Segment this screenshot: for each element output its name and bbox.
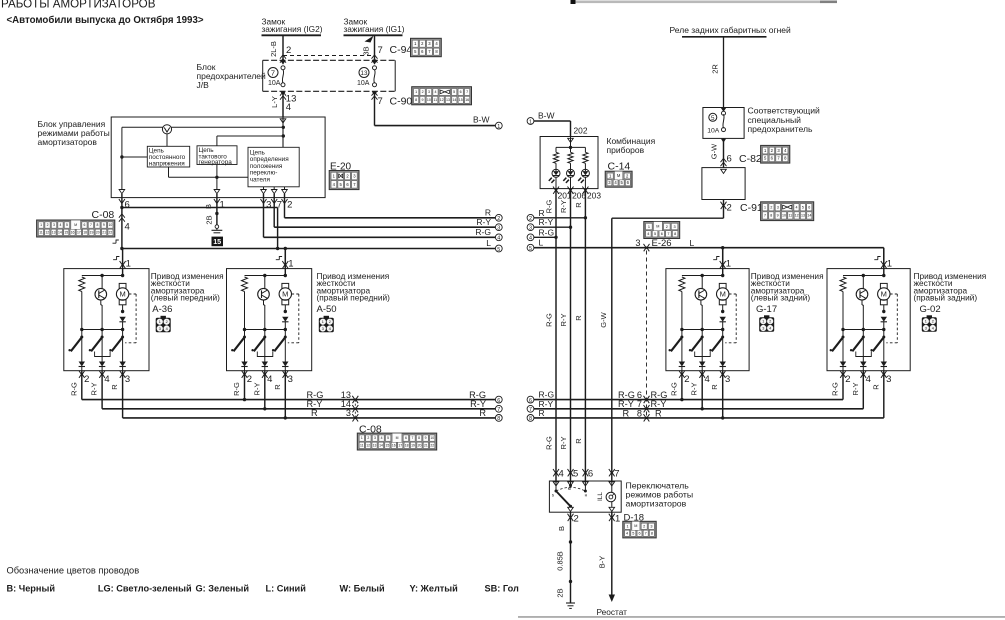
svg-text:14: 14 (379, 443, 383, 447)
svg-text:19: 19 (411, 443, 415, 447)
svg-text:3: 3 (777, 205, 779, 209)
svg-text:15: 15 (385, 443, 389, 447)
svg-text:3: 3 (925, 326, 927, 330)
svg-text:(левый задний): (левый задний) (751, 293, 811, 303)
svg-text:3: 3 (725, 374, 730, 385)
svg-text:7: 7 (764, 214, 766, 218)
svg-text:4: 4 (626, 532, 628, 536)
svg-text:7: 7 (90, 223, 92, 227)
svg-text:3: 3 (159, 327, 161, 331)
svg-text:M: M (74, 223, 77, 227)
svg-text:2B: 2B (556, 588, 565, 597)
svg-text:M: M (881, 290, 887, 299)
svg-text:L-Y: L-Y (270, 96, 279, 108)
svg-text:5: 5 (387, 436, 389, 440)
svg-text:С-08: С-08 (92, 209, 115, 221)
svg-text:20: 20 (418, 443, 422, 447)
svg-text:2R: 2R (711, 64, 720, 74)
svg-text:14: 14 (58, 230, 62, 234)
svg-text:7: 7 (378, 96, 383, 107)
svg-text:9: 9 (777, 214, 779, 218)
svg-text:С-82: С-82 (739, 153, 762, 165)
svg-text:4: 4 (529, 236, 532, 242)
svg-text:1: 1 (925, 320, 927, 324)
svg-text:M: M (634, 524, 637, 528)
svg-text:R: R (623, 408, 630, 418)
svg-text:10: 10 (782, 214, 786, 218)
svg-text:8: 8 (96, 223, 98, 227)
svg-text:8: 8 (497, 416, 500, 422)
svg-text:амортизаторов: амортизаторов (626, 499, 687, 509)
svg-text:Обозначение цветов проводов: Обозначение цветов проводов (7, 565, 140, 575)
svg-text:16: 16 (71, 230, 75, 234)
svg-text:4: 4 (932, 326, 934, 330)
svg-text:(правый задний): (правый задний) (914, 293, 978, 303)
svg-text:M: M (656, 224, 659, 228)
svg-text:3: 3 (497, 226, 500, 232)
svg-text:B: B (204, 204, 213, 209)
svg-text:4: 4 (647, 232, 649, 236)
svg-text:8: 8 (637, 408, 642, 418)
svg-text:M: M (282, 290, 288, 299)
svg-text:4: 4 (286, 102, 291, 113)
svg-text:R-G: R-G (831, 382, 840, 396)
svg-text:2: 2 (684, 374, 689, 385)
svg-text:Реле задних габаритных огней: Реле задних габаритных огней (670, 25, 792, 35)
svg-text:1: 1 (615, 514, 620, 525)
svg-text:С-91: С-91 (740, 202, 763, 214)
svg-text:(правый передний): (правый передний) (317, 293, 391, 303)
svg-text:5: 5 (654, 232, 656, 236)
svg-text:8: 8 (674, 232, 676, 236)
svg-text:ILL: ILL (597, 492, 604, 501)
svg-text:16: 16 (392, 443, 396, 447)
svg-text:R-Y: R-Y (476, 217, 491, 227)
svg-text:R: R (574, 315, 583, 321)
svg-text:L: L (690, 238, 695, 248)
svg-text:6: 6 (405, 436, 407, 440)
svg-text:E-26: E-26 (652, 238, 672, 249)
svg-text:1: 1 (764, 205, 766, 209)
svg-text:5: 5 (802, 205, 804, 209)
svg-text:7: 7 (529, 407, 532, 413)
svg-text:18: 18 (405, 443, 409, 447)
svg-text:5: 5 (497, 247, 500, 253)
svg-text:G-W: G-W (599, 311, 608, 327)
svg-text:1: 1 (627, 524, 629, 528)
svg-text:R: R (479, 408, 486, 418)
svg-text:R: R (110, 384, 119, 390)
svg-text:B-Y: B-Y (598, 556, 607, 569)
svg-text:2: 2 (845, 374, 850, 385)
svg-text:2: 2 (166, 320, 168, 324)
svg-text:R-Y: R-Y (690, 383, 699, 396)
svg-text:4: 4 (166, 327, 168, 331)
svg-text:5: 5 (711, 115, 715, 122)
svg-text:R: R (871, 384, 880, 390)
svg-text:2: 2 (770, 205, 772, 209)
svg-text:3B: 3B (362, 46, 371, 55)
svg-text:1: 1 (529, 119, 532, 125)
svg-text:12: 12 (366, 443, 370, 447)
svg-text:5: 5 (529, 246, 532, 252)
svg-text:2: 2 (287, 200, 292, 211)
svg-text:напряжения: напряжения (149, 160, 185, 167)
svg-text:R: R (710, 384, 719, 390)
svg-text:1: 1 (159, 320, 161, 324)
svg-text:22: 22 (430, 443, 434, 447)
svg-text:1: 1 (288, 259, 293, 270)
svg-text:4: 4 (434, 90, 436, 94)
svg-text:3: 3 (650, 524, 652, 528)
svg-text:M: M (119, 290, 125, 299)
svg-text:<Автомобили выпуска до Октября: <Автомобили выпуска до Октября 1993> (7, 15, 204, 26)
svg-text:4: 4 (559, 469, 564, 480)
svg-text:R-Y: R-Y (539, 217, 554, 227)
svg-text:10: 10 (427, 98, 431, 102)
svg-text:C-94: C-94 (390, 44, 413, 56)
svg-text:R-Y: R-Y (559, 200, 568, 213)
svg-text:R-G: R-G (232, 382, 241, 396)
svg-text:3: 3 (53, 223, 55, 227)
svg-text:13: 13 (52, 230, 56, 234)
svg-text:1: 1 (322, 320, 324, 324)
svg-text:16: 16 (465, 98, 469, 102)
svg-text:6: 6 (727, 154, 732, 165)
svg-text:M: M (396, 436, 399, 440)
svg-text:W: Белый: W: Белый (340, 583, 386, 593)
svg-text:L: L (539, 238, 544, 248)
svg-text:11: 11 (788, 214, 792, 218)
svg-text:7: 7 (378, 45, 383, 56)
svg-text:LG: Светло-зеленый: LG: Светло-зеленый (98, 583, 192, 593)
svg-text:А-36: А-36 (152, 304, 172, 315)
svg-text:21: 21 (102, 230, 106, 234)
svg-text:2: 2 (727, 203, 732, 214)
svg-text:3: 3 (529, 226, 532, 232)
svg-text:13: 13 (801, 214, 805, 218)
svg-text:18: 18 (83, 230, 87, 234)
svg-text:0.85B: 0.85B (556, 551, 565, 571)
svg-text:2: 2 (47, 223, 49, 227)
svg-text:3: 3 (428, 90, 430, 94)
svg-text:зажигания (IG2): зажигания (IG2) (262, 24, 323, 34)
svg-text:11: 11 (39, 230, 43, 234)
svg-text:G-02: G-02 (920, 304, 941, 315)
svg-text:R-G: R-G (545, 199, 554, 213)
svg-text:9: 9 (103, 223, 105, 227)
svg-text:R-Y: R-Y (851, 383, 860, 396)
svg-text:2: 2 (367, 436, 369, 440)
svg-text:8: 8 (651, 532, 653, 536)
svg-text:8: 8 (529, 416, 532, 422)
svg-text:G-17: G-17 (756, 304, 777, 315)
svg-text:2: 2 (932, 320, 934, 324)
svg-text:4: 4 (497, 236, 500, 242)
svg-text:6: 6 (460, 90, 462, 94)
svg-text:21: 21 (424, 443, 428, 447)
svg-text:4: 4 (866, 374, 871, 385)
svg-text:8: 8 (418, 436, 420, 440)
svg-text:11: 11 (433, 98, 437, 102)
svg-text:1: 1 (220, 200, 225, 211)
svg-text:2: 2 (574, 514, 579, 525)
svg-text:4: 4 (60, 223, 62, 227)
svg-text:7: 7 (271, 68, 275, 77)
svg-text:15: 15 (459, 98, 463, 102)
svg-text:6: 6 (588, 469, 593, 480)
svg-text:6: 6 (529, 398, 532, 404)
svg-text:3: 3 (635, 238, 640, 248)
svg-text:G: Зеленый: G: Зеленый (196, 583, 250, 593)
svg-text:6: 6 (497, 398, 500, 404)
svg-text:4: 4 (104, 374, 109, 385)
svg-text:L: L (486, 238, 491, 248)
svg-text:15: 15 (213, 237, 221, 246)
svg-text:R-G: R-G (539, 227, 555, 237)
svg-text:3: 3 (762, 326, 764, 330)
svg-text:R: R (655, 408, 662, 418)
svg-text:13: 13 (373, 443, 377, 447)
svg-text:4: 4 (329, 327, 331, 331)
svg-text:7: 7 (614, 469, 619, 480)
svg-text:203: 203 (587, 191, 601, 201)
svg-text:1: 1 (497, 124, 500, 130)
svg-text:1: 1 (40, 223, 42, 227)
svg-text:7: 7 (412, 436, 414, 440)
svg-text:7: 7 (466, 90, 468, 94)
svg-text:6: 6 (638, 532, 640, 536)
svg-text:7: 7 (645, 532, 647, 536)
svg-text:4: 4 (769, 326, 771, 330)
svg-text:3: 3 (886, 374, 891, 385)
svg-text:2: 2 (247, 374, 252, 385)
svg-text:5: 5 (632, 532, 634, 536)
svg-text:15: 15 (64, 230, 68, 234)
svg-text:R: R (574, 438, 583, 444)
svg-text:1: 1 (361, 436, 363, 440)
svg-text:2: 2 (666, 225, 668, 229)
svg-text:9: 9 (425, 436, 427, 440)
svg-text:2: 2 (643, 524, 645, 528)
svg-text:R-G: R-G (475, 227, 491, 237)
svg-text:14: 14 (807, 214, 811, 218)
svg-text:6: 6 (125, 200, 130, 211)
svg-text:9: 9 (421, 98, 423, 102)
svg-text:2: 2 (769, 320, 771, 324)
svg-text:1: 1 (126, 259, 131, 270)
svg-text:Реостат: Реостат (597, 607, 628, 617)
svg-text:1: 1 (726, 259, 731, 270)
svg-text:5: 5 (573, 469, 578, 480)
svg-text:1: 1 (887, 259, 892, 270)
svg-text:3: 3 (288, 374, 293, 385)
svg-text:РАБОТЫ АМОРТИЗАТОРОВ: РАБОТЫ АМОРТИЗАТОРОВ (1, 0, 156, 11)
svg-text:3: 3 (125, 374, 130, 385)
svg-text:10: 10 (430, 436, 434, 440)
svg-text:2: 2 (497, 216, 500, 222)
svg-text:8: 8 (415, 98, 417, 102)
svg-text:12: 12 (45, 230, 49, 234)
svg-text:R-Y: R-Y (252, 383, 261, 396)
svg-text:14: 14 (452, 98, 456, 102)
svg-text:17: 17 (398, 443, 402, 447)
svg-text:10A: 10A (357, 80, 370, 87)
svg-text:6: 6 (84, 223, 86, 227)
svg-text:B: Черный: B: Черный (7, 583, 56, 593)
svg-text:м: м (568, 486, 571, 491)
svg-text:2: 2 (329, 320, 331, 324)
svg-text:G-W: G-W (710, 143, 719, 159)
svg-text:202: 202 (574, 126, 588, 136)
svg-text:20: 20 (96, 230, 100, 234)
svg-text:R-Y: R-Y (559, 314, 568, 327)
svg-text:2B: 2B (205, 215, 214, 224)
svg-text:11: 11 (360, 443, 364, 447)
svg-text:1: 1 (648, 225, 650, 229)
svg-text:приборов: приборов (607, 145, 645, 155)
svg-text:R-G: R-G (669, 382, 678, 396)
svg-text:зажигания (IG1): зажигания (IG1) (344, 24, 405, 34)
svg-text:6: 6 (808, 205, 810, 209)
svg-text:R: R (574, 202, 583, 208)
svg-text:10A: 10A (268, 80, 281, 87)
svg-text:предохранитель: предохранитель (748, 124, 813, 134)
svg-text:19: 19 (90, 230, 94, 234)
svg-text:2: 2 (529, 216, 532, 222)
svg-text:C-90: C-90 (390, 96, 413, 108)
svg-text:B-W: B-W (538, 111, 555, 121)
svg-text:3: 3 (674, 225, 676, 229)
svg-text:12: 12 (795, 214, 799, 218)
svg-text:4: 4 (705, 374, 710, 385)
svg-text:1: 1 (762, 320, 764, 324)
svg-text:B-W: B-W (473, 115, 490, 125)
svg-text:13: 13 (361, 70, 368, 77)
svg-text:17: 17 (77, 230, 81, 234)
svg-text:M: M (617, 173, 621, 178)
svg-text:3: 3 (322, 327, 324, 331)
svg-text:амортизаторов: амортизаторов (38, 137, 98, 147)
svg-text:R: R (311, 408, 318, 418)
svg-text:3: 3 (374, 436, 376, 440)
svg-text:R-G: R-G (545, 313, 554, 327)
svg-text:(левый передний): (левый передний) (151, 293, 220, 303)
svg-text:M: M (720, 290, 726, 299)
svg-text:B: B (557, 526, 566, 531)
svg-text:13: 13 (446, 98, 450, 102)
svg-text:SB: Гол: SB: Гол (485, 583, 520, 593)
svg-text:3: 3 (346, 408, 351, 418)
svg-text:1: 1 (415, 90, 417, 94)
svg-text:J/B: J/B (197, 80, 210, 90)
svg-text:201: 201 (558, 191, 572, 201)
svg-text:4: 4 (267, 374, 272, 385)
svg-text:8: 8 (770, 214, 772, 218)
svg-text:7: 7 (667, 232, 669, 236)
svg-text:5: 5 (66, 223, 68, 227)
svg-text:22: 22 (109, 230, 113, 234)
svg-text:10: 10 (108, 223, 112, 227)
svg-text:R-G: R-G (69, 382, 78, 396)
svg-text:С-14: С-14 (608, 160, 631, 172)
svg-text:чателя: чателя (250, 176, 271, 183)
svg-text:7: 7 (497, 407, 500, 413)
svg-text:4: 4 (795, 205, 797, 209)
svg-text:R-Y: R-Y (559, 437, 568, 450)
svg-text:R-Y: R-Y (90, 383, 99, 396)
svg-text:2: 2 (422, 90, 424, 94)
svg-text:4: 4 (125, 222, 130, 233)
svg-text:4: 4 (381, 436, 383, 440)
svg-text:12: 12 (440, 98, 444, 102)
svg-text:генератора: генератора (199, 159, 233, 166)
svg-text:А-50: А-50 (317, 304, 337, 315)
svg-text:5: 5 (453, 90, 455, 94)
svg-text:6: 6 (661, 232, 663, 236)
svg-text:R: R (485, 208, 491, 218)
svg-text:R-G: R-G (545, 436, 554, 450)
svg-text:2L-B: 2L-B (269, 41, 278, 57)
svg-text:L: Синий: L: Синий (266, 583, 307, 593)
svg-text:Y: Желтый: Y: Желтый (410, 583, 459, 593)
svg-text:3: 3 (266, 200, 271, 211)
svg-text:10A: 10A (707, 127, 720, 134)
svg-text:R: R (273, 384, 282, 390)
svg-text:2: 2 (84, 374, 89, 385)
svg-text:2: 2 (286, 45, 291, 56)
